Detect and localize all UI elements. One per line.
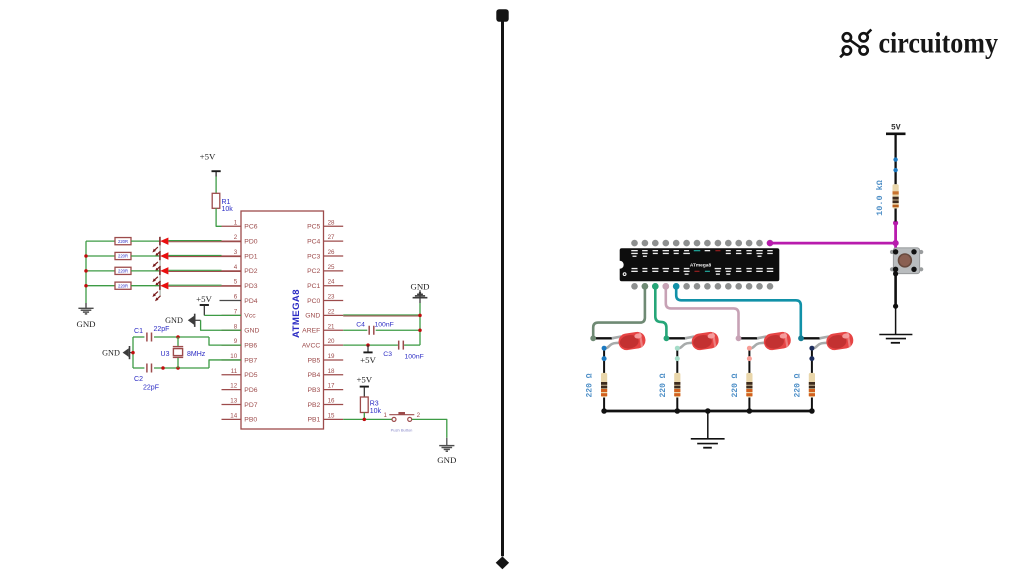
- svg-text:Push Button: Push Button: [391, 428, 413, 433]
- svg-text:PC5: PC5: [307, 224, 320, 231]
- svg-text:PD3: PD3: [244, 283, 257, 290]
- svg-text:220 Ω: 220 Ω: [659, 373, 668, 397]
- svg-text:22pF: 22pF: [154, 326, 170, 333]
- svg-text:20: 20: [328, 338, 335, 345]
- svg-text:1: 1: [384, 412, 388, 419]
- svg-text:100nF: 100nF: [405, 353, 424, 360]
- svg-text:9: 9: [234, 338, 238, 345]
- svg-text:21: 21: [328, 323, 335, 330]
- svg-text:PC1: PC1: [307, 283, 320, 290]
- svg-text:PB4: PB4: [307, 372, 320, 379]
- svg-text:4: 4: [234, 264, 238, 271]
- svg-text:PB5: PB5: [307, 357, 320, 364]
- svg-text:220R: 220R: [118, 268, 128, 273]
- svg-text:+5V: +5V: [196, 294, 212, 304]
- svg-text:27: 27: [328, 234, 335, 241]
- svg-text:10: 10: [230, 353, 237, 360]
- svg-text:C3: C3: [383, 351, 392, 358]
- svg-text:220R: 220R: [118, 254, 128, 259]
- svg-text:PD4: PD4: [244, 298, 257, 305]
- svg-text:+5V: +5V: [356, 374, 372, 384]
- svg-text:PD2: PD2: [244, 268, 257, 275]
- svg-text:19: 19: [328, 353, 335, 360]
- svg-text:PB7: PB7: [244, 357, 257, 364]
- svg-text:PC3: PC3: [307, 253, 320, 260]
- svg-text:PB3: PB3: [307, 387, 320, 394]
- svg-text:U3: U3: [161, 351, 170, 358]
- svg-text:26: 26: [328, 249, 335, 256]
- svg-text:14: 14: [230, 412, 237, 419]
- svg-text:220R: 220R: [118, 283, 128, 288]
- svg-text:22pF: 22pF: [143, 385, 159, 392]
- svg-text:ATMEGA8: ATMEGA8: [291, 289, 302, 338]
- svg-text:PC6: PC6: [244, 224, 257, 231]
- svg-text:PC0: PC0: [307, 298, 320, 305]
- svg-text:100nF: 100nF: [375, 322, 394, 329]
- svg-text:24: 24: [328, 279, 335, 286]
- svg-text:GND: GND: [244, 328, 259, 335]
- svg-text:5V: 5V: [891, 124, 901, 133]
- svg-text:2: 2: [417, 412, 421, 419]
- svg-text:PB0: PB0: [244, 417, 257, 424]
- svg-text:7: 7: [234, 308, 238, 315]
- svg-text:220 Ω: 220 Ω: [586, 373, 595, 397]
- svg-text:28: 28: [328, 219, 335, 226]
- svg-text:PD7: PD7: [244, 402, 257, 409]
- svg-text:3: 3: [234, 249, 238, 256]
- svg-text:PD5: PD5: [244, 372, 257, 379]
- svg-text:12: 12: [230, 383, 237, 390]
- svg-text:GND: GND: [437, 455, 456, 465]
- svg-text:220R: 220R: [118, 239, 128, 244]
- svg-text:GND: GND: [165, 316, 183, 325]
- svg-text:10k: 10k: [222, 206, 234, 213]
- svg-text:22: 22: [328, 308, 335, 315]
- svg-text:2: 2: [234, 234, 238, 241]
- svg-text:circuitomy: circuitomy: [879, 27, 999, 60]
- svg-text:PB6: PB6: [244, 342, 257, 349]
- svg-text:10.0 kΩ: 10.0 kΩ: [875, 180, 885, 216]
- svg-text:PB2: PB2: [307, 402, 320, 409]
- svg-text:AREF: AREF: [302, 328, 320, 335]
- svg-text:10k: 10k: [370, 408, 382, 415]
- svg-text:PC4: PC4: [307, 238, 320, 245]
- svg-text:+5V: +5V: [360, 355, 376, 365]
- svg-text:8: 8: [234, 323, 238, 330]
- svg-text:23: 23: [328, 294, 335, 301]
- svg-text:18: 18: [328, 368, 335, 375]
- svg-text:11: 11: [231, 368, 238, 375]
- svg-text:17: 17: [328, 383, 335, 390]
- svg-text:220 Ω: 220 Ω: [731, 373, 740, 397]
- svg-text:1: 1: [234, 219, 238, 226]
- svg-text:PD0: PD0: [244, 238, 257, 245]
- svg-text:AVCC: AVCC: [302, 342, 320, 349]
- svg-text:8MHz: 8MHz: [187, 351, 206, 358]
- svg-text:PB1: PB1: [307, 417, 320, 424]
- svg-text:PD1: PD1: [244, 253, 257, 260]
- svg-text:C1: C1: [134, 328, 143, 335]
- svg-text:ATmega8: ATmega8: [690, 262, 712, 268]
- svg-text:25: 25: [328, 264, 335, 271]
- svg-text:13: 13: [230, 398, 237, 405]
- svg-text:C2: C2: [134, 376, 143, 383]
- svg-text:GND: GND: [305, 313, 320, 320]
- svg-text:GND: GND: [410, 281, 429, 291]
- svg-text:R1: R1: [222, 199, 231, 206]
- svg-text:220 Ω: 220 Ω: [794, 373, 803, 397]
- svg-text:Vcc: Vcc: [244, 313, 256, 320]
- svg-text:R3: R3: [370, 401, 379, 408]
- svg-text:+5V: +5V: [200, 151, 216, 161]
- svg-text:C4: C4: [356, 322, 365, 329]
- svg-text:PC2: PC2: [307, 268, 320, 275]
- svg-text:GND: GND: [102, 349, 120, 358]
- svg-text:PD6: PD6: [244, 387, 257, 394]
- svg-text:15: 15: [328, 412, 335, 419]
- svg-text:5: 5: [234, 279, 238, 286]
- svg-text:16: 16: [328, 398, 335, 405]
- svg-text:GND: GND: [76, 319, 95, 329]
- svg-text:6: 6: [234, 294, 238, 301]
